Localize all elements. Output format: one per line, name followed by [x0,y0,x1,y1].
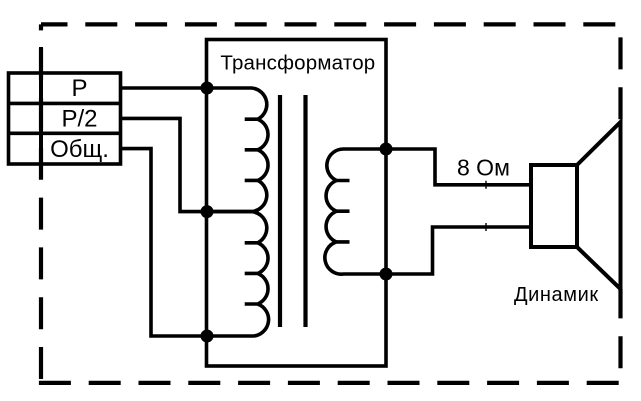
svg-text:Общ.: Общ. [50,136,109,163]
svg-text:8 Ом: 8 Ом [457,155,510,181]
svg-text:Р: Р [71,75,87,102]
svg-text:Р/2: Р/2 [61,106,97,133]
svg-text:Трансформатор: Трансформатор [220,52,375,75]
svg-text:Динамик: Динамик [514,284,599,306]
